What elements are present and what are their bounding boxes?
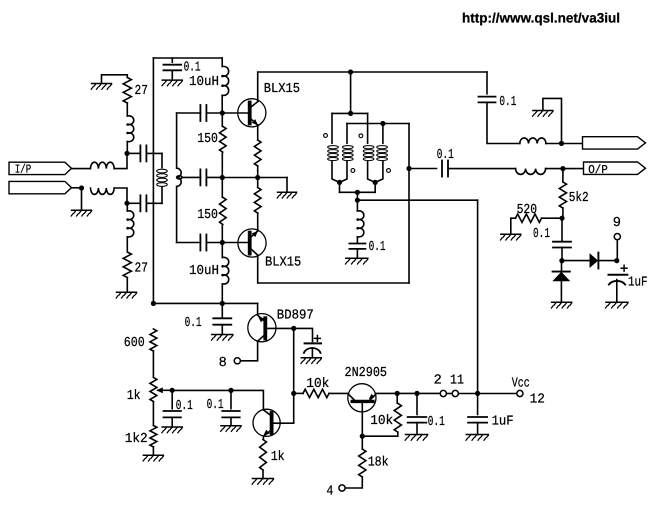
wire xyxy=(146,152,162,154)
wire xyxy=(311,348,313,358)
resistor 27 (bottom) xyxy=(123,252,131,278)
wire xyxy=(345,477,362,488)
svg-text:I/P: I/P xyxy=(15,163,32,177)
wire xyxy=(81,188,83,210)
node xyxy=(348,69,353,74)
transistor Q4 xyxy=(253,409,280,436)
label 27 xyxy=(135,84,149,99)
svg-text:10uH: 10uH xyxy=(189,75,219,90)
resistor 5k2 xyxy=(559,182,566,208)
connector I/P xyxy=(9,162,72,176)
label 10k xyxy=(370,414,393,429)
svg-text:27: 27 xyxy=(135,84,149,99)
node xyxy=(255,175,260,180)
wire xyxy=(146,202,162,204)
wire xyxy=(361,436,363,449)
wire xyxy=(126,278,128,293)
node xyxy=(355,190,360,195)
wire xyxy=(258,72,487,102)
label 12 xyxy=(530,392,545,407)
wire xyxy=(511,218,516,234)
label 520 xyxy=(517,203,538,218)
label 2N2905 xyxy=(345,366,388,381)
label 1uF xyxy=(492,414,514,429)
wire xyxy=(171,417,173,427)
ground xyxy=(162,80,182,86)
svg-text:8: 8 xyxy=(219,356,227,371)
capacitor (coupling bottom) xyxy=(200,235,206,251)
resistor 27 (top) xyxy=(123,78,131,104)
wire xyxy=(416,393,418,414)
capacitor 0.1 (bias) xyxy=(213,318,231,324)
resistor 10k (vertical) xyxy=(394,403,401,432)
node xyxy=(220,240,225,245)
inductor (O/P line) xyxy=(516,169,546,175)
svg-text:0.1: 0.1 xyxy=(428,415,445,430)
transistor Q3 BD897 xyxy=(248,314,276,342)
wire xyxy=(396,393,398,403)
connector (output top) xyxy=(583,137,646,149)
capacitor (coupling top) xyxy=(200,105,206,121)
node xyxy=(151,301,156,306)
node xyxy=(291,391,296,396)
wire xyxy=(221,95,223,113)
node xyxy=(228,388,233,393)
wire xyxy=(152,351,154,377)
svg-text:150: 150 xyxy=(197,132,218,147)
capacitor 0.1 (T2 center) xyxy=(349,244,365,249)
wire xyxy=(543,98,562,143)
inductor L1 xyxy=(91,162,115,168)
ground xyxy=(91,84,111,90)
node xyxy=(220,110,225,115)
wire xyxy=(171,390,173,408)
wire xyxy=(171,70,173,80)
wire xyxy=(114,153,127,168)
svg-text:27: 27 xyxy=(135,262,149,277)
wire xyxy=(598,260,616,262)
ground xyxy=(252,479,273,485)
wire xyxy=(561,261,563,272)
wire xyxy=(350,72,352,113)
wire xyxy=(340,191,376,193)
node xyxy=(559,216,564,221)
label 1k xyxy=(127,389,141,404)
wire xyxy=(127,202,140,204)
label Vcc xyxy=(512,377,530,392)
wire xyxy=(126,142,128,154)
node xyxy=(124,151,129,156)
inductor (T2 center choke) xyxy=(356,211,363,237)
wire xyxy=(152,402,154,426)
terminal 2 xyxy=(440,390,446,396)
capacitor (input top) xyxy=(140,145,146,161)
ground xyxy=(466,435,488,441)
svg-text:BLX15: BLX15 xyxy=(264,82,300,97)
wire xyxy=(487,102,520,143)
capacitor 1uF (+) xyxy=(609,265,628,284)
wire xyxy=(230,417,232,425)
ground xyxy=(221,426,241,432)
label 150 xyxy=(197,208,218,223)
diode D1 xyxy=(590,253,599,269)
wire xyxy=(267,327,294,329)
transformer T2 core2 left winding xyxy=(363,113,375,182)
wire xyxy=(477,200,479,393)
label 0.1 xyxy=(184,61,201,76)
label 5k2 xyxy=(569,191,589,206)
label 4 xyxy=(326,484,333,499)
wire xyxy=(332,112,368,114)
svg-text:0.1: 0.1 xyxy=(499,95,516,110)
wire xyxy=(152,58,154,303)
capacitor 0.1 (top rail) xyxy=(163,65,181,71)
node xyxy=(124,201,129,206)
wire xyxy=(182,176,201,178)
inductor (top output) xyxy=(520,138,546,144)
transformer T2 core2 right winding xyxy=(375,124,387,183)
transformer T1 secondary winding xyxy=(177,113,182,243)
wire xyxy=(546,143,562,145)
wire xyxy=(161,187,163,204)
node xyxy=(380,121,385,126)
wire xyxy=(561,218,563,241)
wire xyxy=(286,178,288,193)
node xyxy=(414,391,419,396)
svg-text:0.1: 0.1 xyxy=(185,316,202,331)
resistor (emitter top) xyxy=(254,140,261,166)
capacitor 0.1 (bias filter 1) xyxy=(164,411,181,417)
wire xyxy=(417,392,440,394)
svg-text:2: 2 xyxy=(434,373,442,388)
url text http://www.qsl.net/va3iul xyxy=(462,11,620,26)
ground xyxy=(606,302,628,308)
wire xyxy=(206,112,222,114)
resistor 18k xyxy=(359,449,366,477)
transistor Q5 2N2905 xyxy=(348,384,376,412)
node xyxy=(559,141,564,146)
wire xyxy=(72,168,91,170)
phasing dot xyxy=(351,169,355,173)
wire xyxy=(221,325,223,335)
wire xyxy=(221,58,223,67)
ground xyxy=(501,234,521,240)
resistor (emitter bottom) xyxy=(254,188,261,214)
svg-text:4: 4 xyxy=(326,484,333,499)
node xyxy=(406,166,411,171)
node xyxy=(360,434,365,439)
wire xyxy=(177,112,201,114)
resistor 1k2 xyxy=(150,426,157,447)
label 0.1 xyxy=(185,316,202,331)
connector O/P xyxy=(584,162,646,177)
ground xyxy=(551,302,571,308)
wire xyxy=(127,152,140,154)
node xyxy=(373,180,378,185)
svg-text:600: 600 xyxy=(124,336,145,351)
transformer T1 center tap curl xyxy=(176,176,182,179)
inductor L2 xyxy=(91,188,115,194)
wire xyxy=(262,436,264,439)
svg-text:2N2905: 2N2905 xyxy=(345,366,388,381)
capacitor 0.1 (output) xyxy=(442,161,448,177)
wire xyxy=(446,393,452,395)
wire xyxy=(361,403,363,436)
wire xyxy=(356,249,358,258)
transformer T2 core1 right winding xyxy=(340,124,354,183)
wire xyxy=(274,422,294,424)
svg-text:0.1: 0.1 xyxy=(176,399,193,414)
wire xyxy=(478,393,517,395)
wire xyxy=(562,208,564,218)
label 2 xyxy=(434,373,442,388)
phasing dot xyxy=(324,134,328,138)
wire xyxy=(616,280,618,303)
wire xyxy=(114,188,127,203)
wire xyxy=(171,58,173,62)
inductor choke (top input) xyxy=(126,116,133,142)
wire xyxy=(262,470,264,479)
ground xyxy=(277,192,296,198)
wire xyxy=(72,187,82,189)
label 0.1 xyxy=(207,398,224,413)
wire xyxy=(362,432,398,436)
wire xyxy=(294,392,303,394)
node xyxy=(475,391,480,396)
capacitor (input bottom) xyxy=(140,195,146,211)
wire xyxy=(329,392,348,394)
wire xyxy=(221,113,223,126)
node xyxy=(79,185,84,190)
wire xyxy=(561,248,563,261)
label 10uH xyxy=(189,75,219,90)
wire xyxy=(408,124,410,284)
label 18k xyxy=(368,456,389,471)
wire xyxy=(126,103,128,116)
wire xyxy=(206,242,222,244)
wire xyxy=(221,303,223,317)
terminal 4 xyxy=(339,485,345,491)
terminal 9 xyxy=(614,234,620,240)
ground xyxy=(162,427,182,433)
phasing dot xyxy=(359,134,363,138)
capacitor 0.1 (top right) xyxy=(479,97,496,103)
svg-text:12: 12 xyxy=(530,392,545,407)
wire xyxy=(126,203,128,252)
wire xyxy=(340,182,376,192)
svg-text:1k: 1k xyxy=(271,450,285,465)
capacitor (coupling mid) xyxy=(200,169,206,185)
svg-text:1uF: 1uF xyxy=(628,276,648,291)
node xyxy=(560,166,565,171)
wire xyxy=(153,57,222,59)
wire xyxy=(409,168,437,170)
label BLX15 xyxy=(265,255,301,270)
svg-text:0.1: 0.1 xyxy=(437,148,454,163)
transformer T1 primary winding xyxy=(157,169,168,186)
inductor choke (bottom input) xyxy=(126,211,133,237)
capacitor 0.1 (detector) xyxy=(553,242,571,248)
wire xyxy=(177,242,201,244)
wire xyxy=(562,169,564,182)
wire xyxy=(562,260,590,262)
wire xyxy=(477,423,479,435)
potentiometer 1k xyxy=(150,377,172,401)
wire xyxy=(230,390,232,408)
svg-text:1k: 1k xyxy=(127,389,141,404)
wire xyxy=(172,390,263,409)
label 600 xyxy=(124,336,145,351)
svg-text:http://www.qsl.net/va3iul: http://www.qsl.net/va3iul xyxy=(462,11,620,26)
label 0.1 xyxy=(437,148,454,163)
svg-text:O/P: O/P xyxy=(588,163,608,177)
ground xyxy=(405,435,427,441)
resistor 1k (Q4 emitter) xyxy=(260,440,267,471)
svg-text:150: 150 xyxy=(197,208,218,223)
connector (input 2) xyxy=(9,181,72,193)
wire xyxy=(102,75,128,84)
label 1k xyxy=(271,450,285,465)
resistor 150 (bottom) xyxy=(220,197,227,224)
node xyxy=(614,258,619,263)
svg-text:BLX15: BLX15 xyxy=(265,255,301,270)
svg-text:9: 9 xyxy=(613,216,621,231)
wire xyxy=(161,153,163,167)
wire xyxy=(357,199,477,201)
node xyxy=(220,175,225,180)
transistor Q2 BLX15 xyxy=(238,229,266,257)
svg-text:11: 11 xyxy=(450,373,464,388)
wire xyxy=(153,302,257,304)
label BLX15 xyxy=(264,82,300,97)
wire xyxy=(222,112,248,114)
svg-text:18k: 18k xyxy=(368,456,389,471)
svg-text:1uF: 1uF xyxy=(492,414,514,429)
svg-text:Vcc: Vcc xyxy=(512,377,530,392)
node xyxy=(559,258,564,263)
wire xyxy=(222,177,287,179)
svg-text:10uH: 10uH xyxy=(189,264,219,279)
svg-text:5k2: 5k2 xyxy=(569,191,589,206)
wire xyxy=(221,152,223,177)
wire xyxy=(616,240,618,261)
svg-text:10k: 10k xyxy=(370,414,393,429)
label 11 xyxy=(450,373,464,388)
label 10uH xyxy=(189,264,219,279)
wire xyxy=(206,176,222,178)
diode D2 xyxy=(552,272,570,282)
wire xyxy=(563,168,584,170)
wire xyxy=(416,423,418,435)
label 150 xyxy=(197,132,218,147)
label 9 xyxy=(613,216,621,231)
node xyxy=(337,180,342,185)
transformer T2 core1 left winding xyxy=(328,113,340,182)
wire xyxy=(477,393,479,414)
label 0.1 xyxy=(369,240,386,255)
wire xyxy=(347,123,409,125)
ground xyxy=(533,111,553,117)
wire xyxy=(448,168,516,170)
wire xyxy=(240,341,257,361)
label 0.1 xyxy=(428,415,445,430)
wire xyxy=(397,392,417,394)
inductor 10uH (bottom) xyxy=(221,257,228,284)
resistor 10k (horizontal) xyxy=(303,389,329,397)
wire xyxy=(152,447,154,455)
ground xyxy=(143,455,163,461)
wire xyxy=(221,243,223,304)
wire xyxy=(356,192,358,200)
node xyxy=(220,301,225,306)
label 1k2 xyxy=(125,432,148,447)
svg-text:BD897: BD897 xyxy=(277,308,314,323)
transistor Q1 BLX15 xyxy=(238,99,266,127)
resistor 600 xyxy=(150,329,157,351)
label 8 xyxy=(219,356,227,371)
wire xyxy=(560,281,562,302)
terminal Vcc xyxy=(517,390,523,396)
label 0.1 xyxy=(533,227,550,242)
svg-text:0.1: 0.1 xyxy=(533,227,550,242)
inductor 10uH (top) xyxy=(221,66,228,95)
label 1uF xyxy=(628,276,648,291)
terminal 11 xyxy=(452,390,458,396)
node xyxy=(348,111,353,116)
wire xyxy=(542,217,563,219)
phasing dot xyxy=(387,169,391,173)
ground xyxy=(71,210,91,216)
label 0.1 xyxy=(499,95,516,110)
wire xyxy=(562,143,583,145)
ground xyxy=(301,358,321,364)
svg-text:0.1: 0.1 xyxy=(184,61,201,76)
capacitor 0.1 (bias filter 2) xyxy=(222,411,239,417)
wire xyxy=(222,242,248,244)
wire xyxy=(221,178,223,198)
label BD897 xyxy=(277,308,314,323)
wire xyxy=(257,178,259,232)
node xyxy=(170,388,175,393)
svg-text:10k: 10k xyxy=(306,377,329,392)
wire xyxy=(293,328,295,393)
resistor 520 xyxy=(516,214,542,222)
label 0.1 xyxy=(176,399,193,414)
wire xyxy=(257,125,259,178)
ground xyxy=(346,258,368,264)
wire xyxy=(356,200,358,211)
node xyxy=(395,391,400,396)
ground xyxy=(116,292,136,298)
terminal 8 xyxy=(234,358,240,364)
wire xyxy=(356,237,358,244)
ground xyxy=(212,335,233,341)
wire xyxy=(486,72,488,94)
svg-text:0.1: 0.1 xyxy=(369,240,386,255)
wire xyxy=(294,328,313,341)
svg-text:1k2: 1k2 xyxy=(125,432,148,447)
wire xyxy=(293,393,295,423)
node xyxy=(291,326,296,331)
resistor 150 (top) xyxy=(220,126,227,152)
wire xyxy=(221,224,223,242)
wire xyxy=(258,255,409,283)
wire xyxy=(376,392,398,394)
wire xyxy=(257,303,259,314)
label 10k xyxy=(306,377,329,392)
capacitor + (BD897) xyxy=(304,336,321,353)
wire xyxy=(458,393,477,395)
